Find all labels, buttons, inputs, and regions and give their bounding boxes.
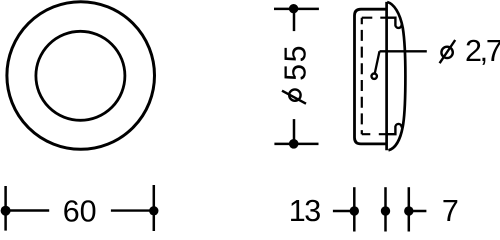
svg-text:2,7: 2,7 bbox=[465, 34, 500, 68]
svg-text:55: 55 bbox=[279, 44, 313, 81]
svg-text:13: 13 bbox=[289, 194, 320, 228]
svg-text:60: 60 bbox=[63, 194, 97, 228]
svg-text:7: 7 bbox=[442, 194, 459, 228]
